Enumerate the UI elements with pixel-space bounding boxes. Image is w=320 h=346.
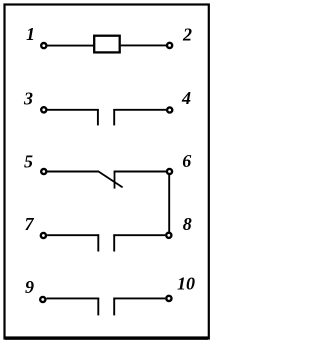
wire contact to pin10 [113, 297, 165, 299]
pin 1 terminal [41, 43, 46, 48]
svg-text:9: 9 [25, 277, 34, 297]
wire pin3 to contact [48, 109, 99, 111]
svg-text:7: 7 [25, 214, 35, 234]
pin 10 terminal [166, 296, 171, 301]
pin 7 terminal [41, 233, 46, 238]
NC contact 5-6 fixed bar [114, 171, 116, 189]
NO contact 9-10 right prong [113, 298, 115, 316]
NC contact 5-6 movable blade [99, 172, 123, 188]
pin 4 terminal [167, 107, 172, 112]
wire pin1 to coil [48, 45, 94, 47]
svg-text:10: 10 [177, 274, 195, 294]
svg-text:5: 5 [24, 152, 33, 172]
pin 3 terminal [41, 107, 46, 112]
svg-text:3: 3 [23, 89, 33, 109]
svg-text:6: 6 [182, 151, 191, 171]
wire pin5 to blade [48, 171, 100, 173]
NO contact 9-10 left prong [97, 298, 99, 316]
NO contact 7-8 right prong [113, 234, 115, 251]
svg-text:1: 1 [26, 24, 35, 44]
wire pin6 to pin8 [168, 175, 170, 232]
wire pin9 to contact [47, 297, 100, 299]
coil K1 [94, 36, 120, 53]
wire coil to pin2 [121, 44, 166, 46]
pin 9 terminal [40, 297, 45, 302]
svg-text:4: 4 [181, 88, 191, 108]
NO contact 3-4 left prong [97, 109, 99, 125]
wire contact to pin8 [113, 234, 165, 236]
wire pin7 to contact [47, 234, 99, 236]
wire contact to pin6 [114, 171, 166, 173]
NO contact 7-8 left prong [97, 234, 99, 251]
pin 8 terminal [166, 233, 171, 238]
pin 6 terminal [167, 169, 172, 174]
pin 2 terminal [167, 43, 172, 48]
svg-text:2: 2 [182, 24, 192, 44]
wire contact to pin4 [113, 109, 166, 111]
NO contact 3-4 right prong [113, 109, 115, 125]
svg-text:8: 8 [183, 214, 192, 234]
pin 5 terminal [41, 169, 46, 174]
